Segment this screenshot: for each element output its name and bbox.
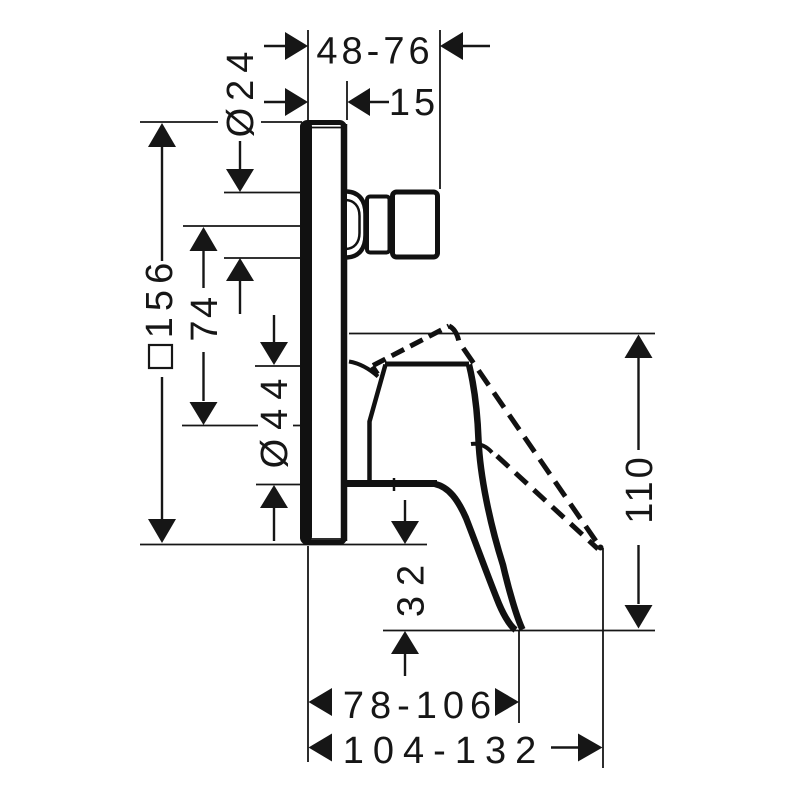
110 / 32 bottom extension line (y=630.5) xyxy=(383,630,655,632)
sleeve top curve xyxy=(349,362,378,377)
extension line dashed handle tip (x=603) xyxy=(602,548,604,768)
dimension 74 upper arrow xyxy=(190,227,218,251)
Ø44 lower arrow xyxy=(260,485,288,508)
Ø24 bottom extension line (y=258) xyxy=(224,257,300,259)
dimension 78-106 right arrow xyxy=(495,688,519,716)
Ø24 top extension line (y=192.5) xyxy=(224,192,300,194)
plate inner face top line xyxy=(311,127,341,129)
dimension 74 lower arrow xyxy=(202,352,204,401)
dimension 78-106 left arrow xyxy=(309,688,333,716)
dashed handle tip dot xyxy=(598,545,604,551)
spindle small cylinder xyxy=(367,197,390,253)
svg-text:Ø44: Ø44 xyxy=(254,370,296,469)
svg-text:104-132: 104-132 xyxy=(343,730,545,772)
svg-text:156: 156 xyxy=(139,257,181,338)
dashed handle top edge xyxy=(373,326,450,374)
sleeve bottom thick line xyxy=(347,480,437,487)
square glyph of 156 xyxy=(149,345,172,368)
Ø44 bottom extension line (y=484.5) xyxy=(256,484,300,486)
dimension 48-76 right arrow xyxy=(462,45,490,47)
74 bottom extension line (y=425.5) xyxy=(182,425,300,427)
extension line valve face right (x=440) xyxy=(439,30,441,189)
square156 / 32 bottom extension line (y=544.5) xyxy=(140,544,427,546)
plate back bar (wall side, filled) xyxy=(300,121,312,542)
Ø24 lower arrow xyxy=(226,258,254,281)
plate front face thick edge xyxy=(341,124,348,541)
escutcheon plate outline xyxy=(303,123,345,543)
svg-text:110: 110 xyxy=(619,454,661,524)
extension line solid handle tip (x=519) xyxy=(518,631,520,723)
dimension 104-132 right arrow xyxy=(551,746,578,748)
extension line wall plane top (x=308) xyxy=(307,30,309,120)
74 top extension line (y=226) xyxy=(183,225,300,227)
dimension 32 upper arrow xyxy=(404,500,406,521)
blade left S-curve xyxy=(435,484,516,630)
svg-text:15: 15 xyxy=(389,82,439,124)
Ø44 top extension line (y=366) xyxy=(255,365,300,367)
svg-text:78-106: 78-106 xyxy=(343,685,497,727)
lever right edge and blade right edge xyxy=(469,365,523,630)
svg-text:Ø24: Ø24 xyxy=(220,45,262,138)
dimension square156 line and arrows xyxy=(148,123,176,147)
dimension 15 right arrow xyxy=(370,101,389,103)
110 top extension line (y=333.5) xyxy=(349,333,655,335)
dimension 32 lower arrow xyxy=(391,631,419,654)
connector bulge outer xyxy=(347,192,366,258)
dimension 48-76 left arrow xyxy=(264,45,286,47)
connector bulge inner xyxy=(346,200,360,249)
dashed handle upper blade edge xyxy=(449,326,600,547)
dimension 110 lower arrow xyxy=(637,545,639,604)
lever top edge xyxy=(385,362,469,367)
lever left edge xyxy=(370,365,386,482)
bottom left extension line (x=308) xyxy=(307,546,309,762)
dimension 15 left arrow xyxy=(264,101,286,103)
svg-text:32: 32 xyxy=(391,555,433,617)
Ø44 upper arrow xyxy=(273,315,275,342)
plate inner face bottom line xyxy=(311,538,341,540)
dimension 110 upper arrow xyxy=(625,335,653,359)
dimension 104-132 left arrow xyxy=(309,734,333,762)
Ø24 upper arrow xyxy=(239,141,241,169)
svg-text:48-76: 48-76 xyxy=(316,31,433,73)
dashed handle lower blade edge xyxy=(497,456,598,549)
handle curl xyxy=(471,444,492,453)
handle joint tick xyxy=(393,478,396,491)
extension line plate front (x=347) xyxy=(346,81,348,120)
svg-text:74: 74 xyxy=(184,294,226,341)
union nut big cylinder xyxy=(393,192,438,257)
square156 top extension line (y=122) xyxy=(140,121,302,123)
